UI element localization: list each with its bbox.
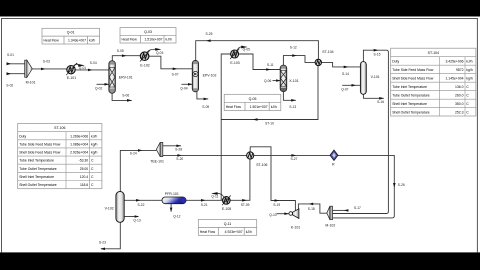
svg-text:Q-05: Q-05 xyxy=(249,97,257,101)
svg-text:260.0: 260.0 xyxy=(455,93,464,97)
svg-text:S-18: S-18 xyxy=(308,207,315,211)
svg-text:E-103: E-103 xyxy=(230,61,239,65)
svg-text:1.269e+006: 1.269e+006 xyxy=(70,134,88,138)
svg-text:E-105: E-105 xyxy=(222,207,231,211)
wire S-26 R to M-102 xyxy=(333,155,395,218)
svg-text:Q-13: Q-13 xyxy=(133,219,140,223)
wire S-12 X-101 top to ST-104 xyxy=(283,56,315,66)
wire S-24 V-102 top to TEE-101 xyxy=(120,150,156,191)
svg-text:ST-106: ST-106 xyxy=(256,163,267,167)
table Q-03 xyxy=(120,28,176,43)
splitter TEE-101 xyxy=(150,142,164,163)
cooler E-102 xyxy=(140,51,150,68)
svg-text:S-22: S-22 xyxy=(138,203,145,207)
table ST-104 xyxy=(391,48,476,116)
svg-text:S-04: S-04 xyxy=(90,61,97,65)
svg-text:Heat Flow: Heat Flow xyxy=(44,39,60,43)
reactor PFR-101 xyxy=(162,192,186,204)
arrow ST-10 pointing left xyxy=(252,118,257,121)
svg-text:S-09: S-09 xyxy=(202,105,209,109)
svg-text:S-25: S-25 xyxy=(206,32,213,36)
wire S-13 X-101 bottoms xyxy=(283,92,296,101)
wire ST-10 ST-104 shell out to riser xyxy=(221,66,318,120)
bottom black bar xyxy=(0,252,480,270)
svg-text:ST-09: ST-09 xyxy=(241,203,250,207)
arrow S-04 xyxy=(88,69,93,72)
svg-text:S-28: S-28 xyxy=(175,148,182,152)
svg-text:kJ/h: kJ/h xyxy=(89,39,95,43)
top black bar xyxy=(0,0,480,17)
wire S-22 V-102 to PFR-101 xyxy=(124,199,162,201)
table Q-05 xyxy=(224,94,281,110)
svg-text:kJ/h: kJ/h xyxy=(466,59,472,63)
svg-text:S-03: S-03 xyxy=(43,60,50,64)
svg-text:4.923e+007: 4.923e+007 xyxy=(225,230,243,234)
energy stream Q-03 xyxy=(147,48,163,55)
svg-text:S-20: S-20 xyxy=(176,157,183,161)
svg-text:S-12: S-12 xyxy=(290,45,297,49)
arrow S-18 pointing left xyxy=(309,203,313,206)
svg-text:S-27: S-27 xyxy=(291,157,298,161)
svg-text:M-101: M-101 xyxy=(26,81,36,85)
arrow S-05 xyxy=(122,54,127,57)
mixer M-102 xyxy=(325,206,335,227)
svg-text:Q-05: Q-05 xyxy=(243,48,250,52)
column V-102 xyxy=(105,192,125,223)
svg-text:1.145e+004: 1.145e+004 xyxy=(445,76,463,80)
wire Q-04 into EPV-102 xyxy=(182,83,193,85)
wire Q-06 into X-101 xyxy=(273,80,281,82)
arrow ST-09 xyxy=(242,199,247,202)
table Q-11 xyxy=(198,220,256,236)
svg-text:ERV-101: ERV-101 xyxy=(119,75,133,79)
exchanger column X-101 xyxy=(280,65,298,91)
stream labels xyxy=(6,32,405,245)
svg-text:Heat Flow: Heat Flow xyxy=(200,230,216,234)
svg-text:V-102: V-102 xyxy=(105,206,114,210)
svg-text:120.4: 120.4 xyxy=(80,175,89,179)
svg-text:S-21: S-21 xyxy=(201,203,208,207)
arrow S-27 xyxy=(291,154,296,157)
svg-text:Q-10: Q-10 xyxy=(269,213,276,217)
svg-text:S-26: S-26 xyxy=(398,183,405,187)
svg-text:-53.30: -53.30 xyxy=(79,159,89,163)
svg-text:V-101: V-101 xyxy=(371,75,380,79)
arrow S-12 xyxy=(292,54,297,57)
svg-text:Shell Inlet Temperature: Shell Inlet Temperature xyxy=(392,102,427,106)
svg-text:Q-07: Q-07 xyxy=(341,87,348,91)
svg-text:350.0: 350.0 xyxy=(455,102,464,106)
arrow Q-12 pointing down xyxy=(170,208,173,212)
wire S-14 ST-104 to V-101 xyxy=(321,62,360,67)
svg-text:1.086e+004: 1.086e+004 xyxy=(70,142,88,146)
svg-text:S-11: S-11 xyxy=(267,63,274,67)
arrow S-14 xyxy=(344,66,349,69)
svg-text:TEE-101: TEE-101 xyxy=(150,160,164,164)
svg-text:Tube Outlet Temperature: Tube Outlet Temperature xyxy=(19,167,57,171)
wire S-18 K-101 to M-102 apex xyxy=(298,204,326,213)
svg-text:S-19: S-19 xyxy=(273,203,280,207)
svg-text:1.343e+007: 1.343e+007 xyxy=(68,39,86,43)
svg-text:Q-01: Q-01 xyxy=(67,31,75,35)
wire Q-02 into ERV-101 xyxy=(97,83,109,85)
svg-text:kJ/h: kJ/h xyxy=(246,230,252,234)
wire S-28 TEE-101 top product xyxy=(163,145,181,147)
arrow S-23 terminal pointing left xyxy=(100,248,105,251)
arrow S-25 pointing left xyxy=(206,39,211,42)
wire Q-10 into K-101 xyxy=(277,213,289,215)
svg-text:Duty: Duty xyxy=(392,59,399,63)
svg-text:Q-02: Q-02 xyxy=(95,86,102,90)
wire S-25 recycle ST-104 to EPV-102 xyxy=(196,41,319,61)
svg-text:S-01: S-01 xyxy=(7,53,14,57)
svg-text:S-14: S-14 xyxy=(342,72,349,76)
svg-text:S-06: S-06 xyxy=(122,94,129,98)
svg-text:Shell Side Feed Mass Flow: Shell Side Feed Mass Flow xyxy=(392,76,434,80)
wire S-09 EPV-102 bottoms xyxy=(197,92,208,99)
svg-text:M-102: M-102 xyxy=(325,223,335,227)
svg-text:Q-11: Q-11 xyxy=(211,195,218,199)
svg-text:S-24: S-24 xyxy=(130,152,137,156)
arrow Q-02 xyxy=(105,83,109,86)
svg-text:kJ/h: kJ/h xyxy=(271,105,277,109)
svg-text:ST-104: ST-104 xyxy=(322,50,333,54)
svg-text:Tube Side Feed Mass Flow: Tube Side Feed Mass Flow xyxy=(392,68,434,72)
arrow Q-10 xyxy=(284,212,288,215)
arrow Q-13 terminal xyxy=(135,215,140,218)
arrow S-15 xyxy=(374,49,379,52)
svg-text:kg/h: kg/h xyxy=(466,76,473,80)
svg-text:Heat Flow: Heat Flow xyxy=(226,105,242,109)
arrow S-24 xyxy=(138,149,142,152)
svg-text:kg/h: kg/h xyxy=(466,68,473,72)
svg-text:ST-104: ST-104 xyxy=(428,51,439,55)
wire S-15 V-101 overhead down to M-102 xyxy=(333,50,389,213)
wire S-19 ST-106 top to K-101 xyxy=(250,147,295,211)
svg-text:1.501e+007: 1.501e+007 xyxy=(250,105,268,109)
wire S-02 feed line xyxy=(7,73,25,75)
wire S-03 M-101 to E-101 xyxy=(32,68,67,70)
svg-text:Shell Side Feed Mass Flow: Shell Side Feed Mass Flow xyxy=(19,151,61,155)
wire S-21 PFR-101 to E-105 xyxy=(186,199,223,201)
svg-text:Duty: Duty xyxy=(19,134,26,138)
svg-text:Q-06: Q-06 xyxy=(264,79,271,83)
arrow Q-07 xyxy=(352,84,357,87)
svg-text:136.0: 136.0 xyxy=(455,85,464,89)
svg-text:118.6: 118.6 xyxy=(80,183,88,187)
wire S-06 ERV-101 bottoms xyxy=(112,93,132,100)
svg-text:Tube Side Feed Mass Flow: Tube Side Feed Mass Flow xyxy=(19,142,61,146)
energy stream Q-05 xyxy=(237,46,250,52)
arrow S-26 pointing down xyxy=(393,183,396,188)
svg-text:K-101: K-101 xyxy=(291,226,300,230)
svg-text:S-23: S-23 xyxy=(99,240,106,244)
wire S-17 feed into M-102 xyxy=(333,209,349,211)
energy stream Q-11 xyxy=(211,192,224,199)
svg-text:Shell Outlet Temperature: Shell Outlet Temperature xyxy=(392,110,430,114)
svg-text:S-13: S-13 xyxy=(289,105,296,109)
wire Q-13 out of V-102 xyxy=(124,216,138,218)
wire S-20 TEE-101 to ST-106 xyxy=(163,154,247,156)
svg-text:252.3: 252.3 xyxy=(455,110,464,114)
wire S-04 E-101 to ERV-101 xyxy=(75,69,109,71)
feed arrow S-02 xyxy=(7,72,12,75)
svg-text:9872: 9872 xyxy=(456,68,464,72)
arrow S-13 terminal xyxy=(291,99,296,102)
svg-text:ST-10: ST-10 xyxy=(265,122,274,126)
arrow S-03 xyxy=(41,68,46,71)
vessel EPV-102 xyxy=(192,61,216,92)
svg-text:Q-03: Q-03 xyxy=(144,30,152,34)
svg-text:Q-01: Q-01 xyxy=(79,66,86,70)
svg-text:S-05: S-05 xyxy=(117,49,124,53)
table ST-106 xyxy=(18,124,102,189)
arrow S-22 xyxy=(136,199,141,202)
mixer M-101 xyxy=(25,60,36,84)
svg-text:S-07: S-07 xyxy=(172,73,179,77)
arrowheads xyxy=(7,39,396,250)
svg-text:Tube Inlet Temperature: Tube Inlet Temperature xyxy=(19,159,54,163)
svg-text:EPV-102: EPV-102 xyxy=(203,74,217,78)
exchanger ST-104 xyxy=(315,50,334,66)
arrow S-06 terminal xyxy=(127,99,132,102)
heater E-101 xyxy=(66,63,78,81)
svg-text:2.926e+004: 2.926e+004 xyxy=(70,151,88,155)
heater E-105 xyxy=(222,195,231,211)
svg-text:ST-106: ST-106 xyxy=(54,126,65,130)
reactor column ERV-101 xyxy=(109,61,133,93)
svg-text:3.425e+006: 3.425e+006 xyxy=(445,59,463,63)
svg-text:E-102: E-102 xyxy=(140,64,149,68)
svg-text:kJ/h: kJ/h xyxy=(91,134,97,138)
wire S-11 E-103 to X-101 xyxy=(239,54,281,70)
svg-text:Q-04: Q-04 xyxy=(180,86,187,90)
svg-text:Tube Inlet Temperature: Tube Inlet Temperature xyxy=(392,85,427,89)
svg-text:Q-03: Q-03 xyxy=(156,51,163,55)
svg-text:S-02: S-02 xyxy=(6,84,13,88)
table Q-01 xyxy=(42,28,100,44)
svg-text:Q-11: Q-11 xyxy=(224,222,232,226)
energy stream Q-01 xyxy=(74,64,87,70)
arrow S-21 xyxy=(201,199,206,202)
arrow S-28 terminal xyxy=(176,145,181,148)
wire ST-09 E-105 to ST-106 bottom xyxy=(230,159,250,200)
wire S-27 ST-106 to recycle R xyxy=(254,154,330,156)
arrow S-20 xyxy=(177,154,182,157)
svg-text:S-16: S-16 xyxy=(377,100,384,104)
heater E-103 xyxy=(230,49,240,66)
exchanger ST-106 xyxy=(247,152,268,167)
svg-text:X-101: X-101 xyxy=(289,79,298,83)
arrow S-17 pointing left xyxy=(344,209,348,212)
wire S-23 V-102 bottoms xyxy=(101,222,120,249)
arrow Q-06 xyxy=(276,79,280,82)
arrow S-09 terminal xyxy=(204,98,209,101)
svg-text:Q-12: Q-12 xyxy=(173,214,180,218)
wire Q-12 out of PFR-101 xyxy=(170,204,172,212)
svg-text:kg/h: kg/h xyxy=(91,142,98,146)
arrow S-07 xyxy=(173,68,178,71)
svg-text:E-101: E-101 xyxy=(67,76,76,80)
arrow Q-04 xyxy=(188,83,192,86)
wire S-07 E-102 to EPV-102 xyxy=(149,56,192,69)
feed arrow S-01 xyxy=(7,62,12,65)
svg-text:Tube Outlet Temperature: Tube Outlet Temperature xyxy=(392,93,430,97)
svg-text:kg/h: kg/h xyxy=(91,151,98,155)
svg-text:Shell Outlet Temperature: Shell Outlet Temperature xyxy=(19,183,57,187)
compressor K-101 xyxy=(289,209,300,230)
wire Q-07 into V-101 xyxy=(342,84,360,86)
svg-text:S-17: S-17 xyxy=(354,206,361,210)
arrow S-16 terminal xyxy=(379,97,384,100)
wire S-05 ERV-101 overhead to E-102 xyxy=(112,56,140,61)
svg-text:Heat Flow: Heat Flow xyxy=(122,38,138,42)
svg-text:PFR-101: PFR-101 xyxy=(165,192,179,196)
svg-text:1.510e+007: 1.510e+007 xyxy=(144,38,162,42)
svg-text:kJ/h: kJ/h xyxy=(166,38,172,42)
arrow S-19 xyxy=(275,199,280,202)
wire ST-09 riser E-105 to E-103 xyxy=(221,54,230,200)
wire S-01 feed line xyxy=(7,63,25,65)
recycle block R xyxy=(330,150,338,167)
svg-text:S-15: S-15 xyxy=(374,53,381,57)
separator V-101 xyxy=(360,62,379,95)
svg-text:25.00: 25.00 xyxy=(80,167,89,171)
svg-text:Shell Inlet Temperature: Shell Inlet Temperature xyxy=(19,175,54,179)
arrow S-11 xyxy=(266,68,271,71)
wire S-16 V-101 bottoms xyxy=(363,94,383,98)
